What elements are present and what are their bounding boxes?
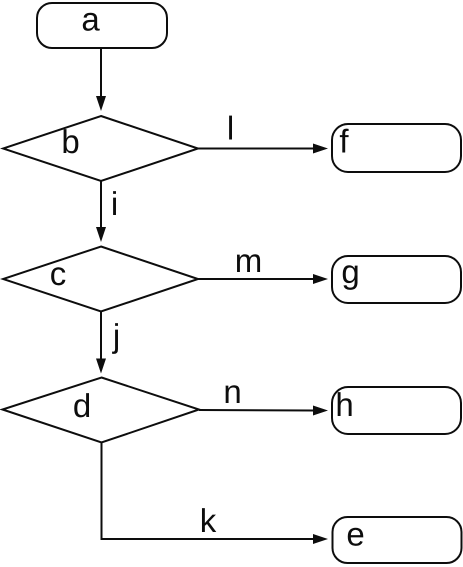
svg-text:j: j [112, 317, 120, 354]
box h [332, 387, 461, 434]
wire b to c [100, 181, 102, 229]
svg-text:e: e [346, 516, 364, 553]
svg-text:h: h [335, 386, 353, 423]
svg-text:a: a [81, 1, 100, 38]
svg-text:b: b [61, 123, 79, 160]
diamond c [3, 247, 198, 312]
svg-text:i: i [111, 185, 118, 222]
svg-text:k: k [200, 502, 217, 539]
box g [332, 256, 461, 303]
arrowhead into g [313, 274, 328, 284]
svg-text:d: d [73, 387, 91, 424]
diamond b [3, 116, 198, 181]
wire a to b [100, 48, 102, 97]
wire b to f [198, 148, 314, 150]
svg-text:m: m [235, 242, 263, 279]
svg-text:c: c [50, 255, 67, 292]
box f [332, 124, 461, 172]
box a [37, 3, 167, 48]
arrowhead into c [96, 227, 106, 242]
svg-text:n: n [223, 373, 241, 410]
svg-text:f: f [339, 123, 349, 160]
arrowhead into e [313, 534, 328, 544]
arrowhead into f [313, 144, 328, 154]
wire c to d [100, 312, 102, 361]
wire d to h [199, 409, 314, 412]
svg-text:g: g [341, 253, 359, 290]
diamond d [3, 378, 200, 443]
wire c to g [198, 278, 314, 280]
arrowhead into b [96, 96, 106, 111]
arrowhead into h [313, 406, 328, 416]
arrowhead into d [96, 359, 106, 374]
wire d to e (down then right) [102, 443, 315, 540]
box e [333, 517, 462, 563]
svg-text:l: l [227, 110, 234, 147]
